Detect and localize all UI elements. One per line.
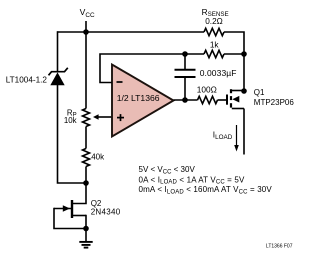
svg-text:LT1366 F07: LT1366 F07: [266, 244, 293, 250]
svg-text:1/2 LT1366: 1/2 LT1366: [117, 93, 160, 103]
wire left rail lower: [58, 84, 87, 183]
wire left rail upper: [57, 31, 59, 72]
svg-text:1k: 1k: [210, 39, 220, 49]
junction dot feedback/cap: [182, 51, 188, 57]
potentiometer RP body: [83, 109, 90, 127]
potentiometer wiper arrow: [93, 114, 112, 119]
svg-text:Q1: Q1: [254, 88, 265, 97]
svg-text:0.2Ω: 0.2Ω: [205, 17, 223, 26]
zener diode D1 LT1004-1.2: [49, 68, 68, 85]
svg-text:0.0033µF: 0.0033µF: [200, 68, 237, 78]
junction dot bottom-left node: [83, 180, 89, 186]
wire node to Q2 drain: [73, 183, 86, 204]
wire 40k to bottom node: [85, 167, 87, 184]
wire op-amp output: [174, 99, 198, 101]
svg-text:2N4340: 2N4340: [91, 208, 121, 217]
junction dot Q2 source node: [83, 226, 89, 232]
svg-text:LT1004-1.2: LT1004-1.2: [6, 76, 48, 85]
resistor 1k body: [204, 50, 224, 57]
svg-text:MTP23P06: MTP23P06: [254, 98, 295, 107]
arrow ILOAD: [234, 125, 239, 152]
wire Q1 source to load: [243, 109, 245, 155]
resistor 100 ohm body: [198, 96, 218, 103]
transistor Q2 2N4340 JFET: [54, 200, 86, 218]
wire Q2 gate-source loop: [54, 208, 86, 229]
resistor 40k body: [83, 149, 90, 167]
wire RSENSE to right rail corner: [224, 32, 244, 54]
wire 1k to right rail: [224, 53, 244, 55]
junction dot Q1 top: [241, 88, 247, 94]
svg-text:10k: 10k: [64, 116, 77, 125]
wire top rail from left corner to RSENSE: [58, 31, 205, 33]
resistor RSENSE body: [204, 28, 224, 35]
junction dot 1k right: [241, 51, 247, 57]
junction dot output/cap: [182, 97, 188, 103]
junction dot Vcc: [83, 29, 89, 35]
svg-text:0A < ILOAD < 1A AT VCC = 5V: 0A < ILOAD < 1A AT VCC = 5V: [139, 175, 245, 185]
svg-text:100Ω: 100Ω: [197, 85, 217, 95]
node Vcc stub: [85, 21, 87, 32]
wire right rail RSENSE to Q1: [243, 54, 245, 91]
svg-text:0mA < ILOAD < 160mA AT VCC = 3: 0mA < ILOAD < 160mA AT VCC = 30V: [139, 185, 273, 195]
op-amp U1 1/2 LT1366: [112, 65, 174, 137]
transistor Q1 MTP23P06 MOSFET: [227, 89, 244, 108]
wire pot to 40k: [85, 127, 87, 149]
op-amp minus sign: [117, 81, 123, 83]
wire Vcc branch down to pot: [85, 32, 87, 109]
wire inverting input feedback loop: [100, 54, 204, 83]
wire 100 ohm to gate: [218, 99, 227, 101]
wire to ground: [85, 229, 87, 242]
svg-text:40k: 40k: [91, 153, 105, 162]
capacitor C1 0.0033uF: [175, 54, 196, 100]
ground: [79, 242, 92, 248]
op-amp plus sign: [117, 114, 124, 121]
